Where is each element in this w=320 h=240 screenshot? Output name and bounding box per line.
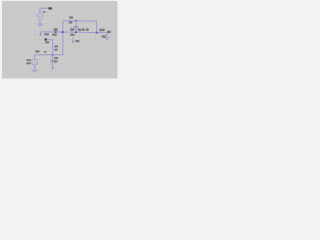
wire I2 top corner	[34, 55, 36, 59]
junction at 52.6,54.2	[52, 54, 54, 56]
page border backdrop	[0, 0, 120, 81]
wire right extension	[97, 32, 107, 34]
label right of corner 107	[107, 31, 111, 33]
label I1	[43, 11, 46, 13]
junction at 55.6,32.4	[55, 31, 57, 33]
ground right	[105, 37, 110, 39]
ground below I1	[38, 24, 43, 26]
ground arrow at bottom rail left end	[39, 32, 42, 36]
net flag label (dark) at wire end	[48, 7, 52, 9]
label below branch wire	[45, 41, 49, 43]
value I2	[26, 62, 31, 64]
label right of mid arrow	[75, 40, 79, 42]
wire branch up from junction	[46, 40, 53, 55]
current source I1	[37, 13, 43, 19]
junction at 63,32.4	[62, 31, 64, 33]
capacitor below junction	[50, 55, 54, 62]
ground arrow below capacitor	[51, 62, 54, 70]
label right of arrow flag	[44, 33, 49, 35]
label above bottom rail right	[82, 28, 85, 31]
wire drop to right ground	[106, 33, 108, 38]
ground arrow below mid area	[72, 38, 75, 44]
label right of capacitor branch	[54, 57, 58, 59]
wire from I1 top to net flag	[40, 8, 48, 13]
label below junction 55	[52, 34, 57, 36]
label above right extension	[99, 29, 104, 31]
value below top rail	[69, 21, 73, 23]
label below right extension	[101, 35, 105, 37]
label above junction 55	[53, 28, 57, 30]
wire I2 bottom	[34, 65, 36, 70]
label above lower rail near corner	[35, 50, 39, 52]
label left of capacitor	[70, 28, 74, 30]
junction at 76,20.9	[75, 20, 77, 22]
wire lower horizontal rail	[35, 54, 63, 56]
label I2	[26, 59, 31, 61]
wire I1 bottom to ground	[39, 19, 41, 24]
ground below I2	[32, 70, 37, 72]
capacitor mid (vertical between rails)	[74, 21, 79, 32]
value right of capacitor branch	[54, 60, 57, 62]
wire right vertical	[96, 21, 98, 32]
value above bottom rail right	[86, 28, 89, 31]
label right of capacitor	[78, 29, 82, 31]
grid dots	[2, 1, 118, 79]
label below bottom rail mid	[70, 34, 74, 36]
wire top rail	[63, 20, 97, 22]
small label above lower rail mid	[44, 51, 46, 53]
wire bottom rail	[41, 31, 97, 34]
wire long left vertical	[62, 21, 64, 55]
net flag at branch wire end	[45, 38, 47, 40]
junction at 76,32.4	[75, 31, 77, 33]
value right of branch upper	[54, 49, 57, 51]
schematic gray canvas	[2, 1, 118, 79]
current source I2	[32, 59, 38, 65]
label right of branch upper	[54, 45, 58, 47]
junction at 96.6,32.4	[96, 32, 98, 34]
label above top rail	[69, 16, 73, 18]
